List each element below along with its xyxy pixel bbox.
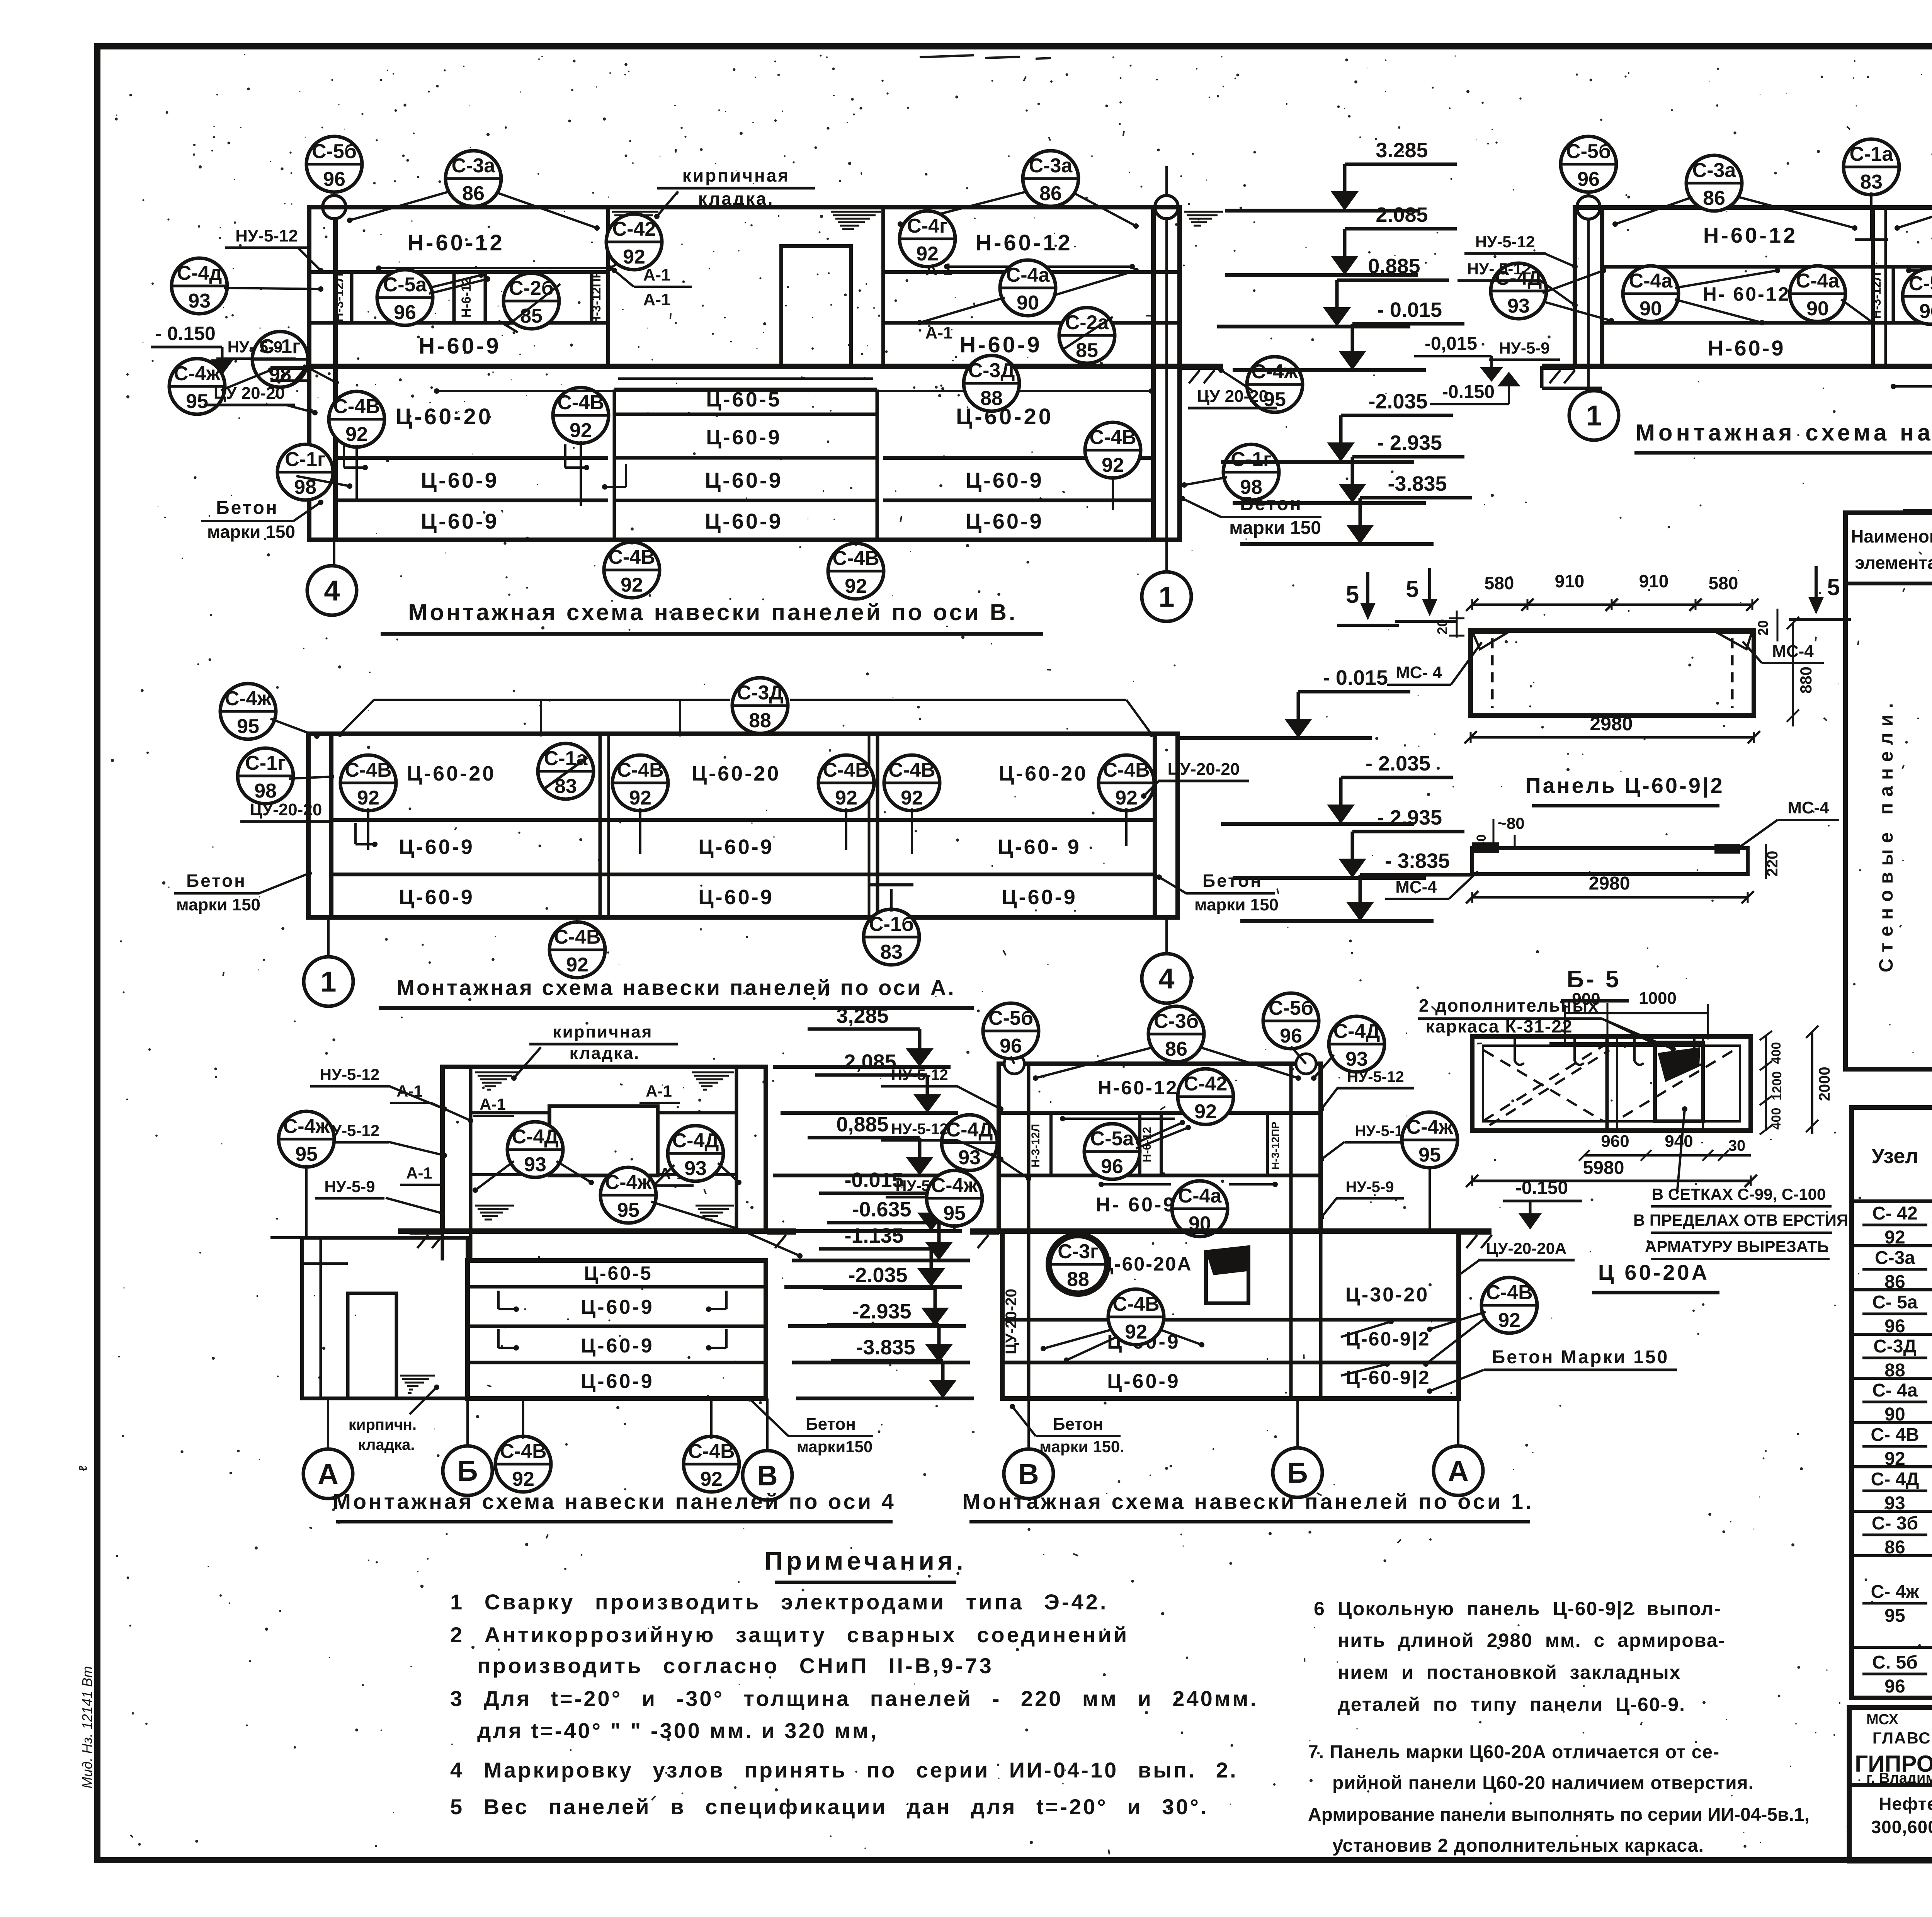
level mark - 2.935 [1233, 431, 1464, 503]
svg-text:элемента: элемента [1855, 553, 1932, 573]
top edge [1575, 205, 1932, 210]
svg-text:-3.835: -3.835 [1388, 472, 1447, 495]
level mark -0.015 [784, 1169, 962, 1231]
svg-text:2000: 2000 [1816, 1067, 1833, 1101]
svg-text:С-3Д: С-3Д [1873, 1336, 1917, 1357]
bottom edge -3.835 [309, 538, 1180, 542]
level mark -0.635 [792, 1198, 970, 1260]
svg-text:2.085: 2.085 [1376, 203, 1428, 226]
svg-text:С-4ж: С-4ж [283, 1115, 330, 1138]
svg-text:83: 83 [880, 941, 903, 963]
table: specification of overlay details [1852, 1107, 1932, 1698]
svg-text:С-3Д: С-3Д [968, 359, 1015, 382]
svg-text:Н- 60-9: Н- 60-9 [1096, 1194, 1176, 1216]
svg-text:кирпичная: кирпичная [682, 165, 790, 185]
svg-text:2,085: 2,085 [844, 1050, 896, 1073]
svg-text:для t=-40° ": для t=-40° " " -300 мм. и 320 мм, [477, 1718, 878, 1743]
level mark - 0.015 [1179, 666, 1410, 738]
svg-text:А-1: А-1 [646, 1082, 672, 1100]
mounting scheme along axis A [174, 666, 1472, 1008]
brick hatch [692, 1072, 734, 1090]
node marker С-4а/90 [1172, 1181, 1228, 1237]
level mark -2.035 [1221, 390, 1453, 462]
svg-text:88: 88 [1884, 1360, 1905, 1381]
brick hatch [475, 1206, 514, 1223]
svg-text:92: 92 [357, 787, 379, 809]
svg-text:С-1г: С-1г [285, 448, 325, 471]
svg-text:Ц-60-9: Ц-60-9 [698, 886, 774, 909]
svg-text:НУ- 5-9: НУ- 5-9 [228, 338, 283, 356]
svg-text:С- 4Д: С- 4Д [1871, 1469, 1919, 1490]
svg-text:96: 96 [1884, 1316, 1905, 1337]
svg-text:Б: Б [1287, 1457, 1308, 1489]
svg-text:92: 92 [623, 246, 645, 268]
node marker С-1г/98 [252, 332, 308, 387]
svg-text:С-4а: С-4а [1006, 264, 1050, 286]
svg-text:С-4В: С-4В [617, 759, 663, 781]
svg-text:С-4а: С-4а [1796, 270, 1840, 292]
node marker С-4Д/93 [507, 1122, 563, 1177]
node marker С-4ж/95 [220, 684, 276, 739]
svg-text:С-4Д: С-4Д [946, 1119, 993, 1141]
mounting scheme along axis 1 [881, 993, 1677, 1522]
ground hatch [1181, 368, 1223, 383]
axis line 4 [333, 166, 335, 587]
ground hatch [767, 1233, 796, 1248]
svg-text:93: 93 [188, 290, 211, 312]
node marker С-4В/92 [549, 922, 605, 978]
svg-text:Ц-60-9: Ц-60-9 [581, 1335, 654, 1357]
svg-text:НУ-5-12: НУ-5-12 [235, 226, 298, 245]
left wall column [1575, 208, 1602, 366]
node marker С-4В/92 [1481, 1277, 1537, 1333]
node marker С-5а/96 [1903, 269, 1932, 324]
title block [1849, 1708, 1932, 1861]
node marker С-4В/92 [884, 755, 940, 811]
svg-text:С-4ж: С-4ж [1406, 1116, 1454, 1138]
svg-text:Ц-60-9: Ц-60-9 [581, 1370, 654, 1393]
mounting scheme along axis 4 [270, 1022, 896, 1522]
svg-text:Н-60-9: Н-60-9 [418, 333, 501, 359]
left wall [308, 734, 331, 917]
svg-text:МС- 4: МС- 4 [1396, 663, 1442, 682]
svg-text:-0.015: -0.015 [844, 1169, 903, 1192]
node marker С-4Д/93 [1491, 263, 1546, 319]
svg-text:- 0.150: - 0.150 [155, 323, 216, 344]
lower block outline [1002, 1231, 1459, 1398]
axis 1 [1142, 572, 1191, 621]
axis А [303, 1449, 353, 1499]
svg-text:Н-3-12Л: Н-3-12Л [332, 273, 346, 322]
node marker С-4ж/95 [169, 359, 225, 414]
level mark 0,885 [773, 1113, 951, 1175]
svg-text:92: 92 [700, 1468, 723, 1490]
svg-text:96: 96 [394, 301, 416, 324]
axis В [1004, 1449, 1053, 1499]
svg-text:С-4В: С-4В [333, 395, 380, 418]
node marker С-42/92 [606, 214, 662, 270]
line +0.885 left [309, 321, 608, 325]
svg-text:400: 400 [1769, 1108, 1784, 1130]
svg-text:С-5а: С-5а [383, 274, 427, 296]
svg-text:Бетон: Бетон [1202, 871, 1263, 891]
svg-text:Ц 60-20А: Ц 60-20А [1598, 1260, 1709, 1284]
svg-text:2980: 2980 [1589, 873, 1630, 894]
svg-text:Н-3-12ПР: Н-3-12ПР [1269, 1122, 1281, 1170]
svg-text:- 2.935: - 2.935 [1377, 431, 1442, 454]
level mark 0.885 [1217, 255, 1449, 327]
svg-text:С- 4В: С- 4В [1871, 1425, 1919, 1445]
svg-text:-2.935: -2.935 [852, 1300, 911, 1323]
level mark -2.935 [792, 1300, 970, 1362]
divider [1871, 208, 1875, 366]
svg-text:92: 92 [1884, 1449, 1905, 1469]
svg-text:кирпичная: кирпичная [553, 1022, 653, 1041]
svg-text:-0,015: -0,015 [1425, 333, 1477, 354]
lower block [468, 1260, 766, 1398]
svg-text:400: 400 [1769, 1042, 1784, 1064]
section divider [881, 207, 885, 366]
row line [999, 1111, 1321, 1115]
svg-text:Б- 5: Б- 5 [1567, 966, 1621, 993]
svg-text:А-1: А-1 [396, 1082, 423, 1100]
svg-text:- 0.015: - 0.015 [1323, 666, 1388, 689]
axis Б [1273, 1448, 1322, 1497]
svg-text:2 дополнительных: 2 дополнительных [1419, 995, 1599, 1015]
ground hatch [1459, 1233, 1492, 1248]
svg-text:-0.635: -0.635 [852, 1198, 911, 1221]
svg-text:А-1: А-1 [643, 290, 671, 309]
svg-text:90: 90 [1884, 1404, 1905, 1425]
svg-text:С-1а: С-1а [544, 747, 588, 770]
node marker С-4В/92 [612, 755, 668, 811]
node marker С-42/92 [1178, 1069, 1233, 1124]
node marker С-4В/92 [818, 755, 874, 811]
svg-text:92: 92 [629, 787, 651, 809]
mounting scheme along axis Б (top-right elevation) [1414, 134, 1932, 453]
svg-text:1: 1 [1586, 400, 1602, 432]
svg-text:В: В [1018, 1458, 1039, 1490]
axis 1 [304, 957, 353, 1006]
svg-text:86: 86 [462, 182, 485, 205]
line +2.085 right [883, 270, 1180, 274]
svg-text:98: 98 [254, 780, 277, 802]
svg-text:Ц-60-5: Ц-60-5 [584, 1262, 652, 1284]
svg-text:Примечания.: Примечания. [764, 1546, 967, 1575]
axis line 1 [1165, 166, 1168, 595]
axis 1 [1569, 391, 1619, 440]
node marker С-4В/92 [553, 388, 609, 443]
svg-text:96: 96 [1000, 1035, 1022, 1057]
svg-text:85: 85 [1076, 339, 1098, 362]
level mark 2,085 [781, 1050, 958, 1113]
svg-text:92: 92 [1194, 1101, 1217, 1123]
svg-text:880: 880 [1797, 667, 1815, 694]
svg-text:6 Цокольную панель Ц-60-9|: 6 Цокольную панель Ц-60-9|2 выпол- [1314, 1598, 1721, 1620]
svg-text:Ц-60-9: Ц-60-9 [1107, 1370, 1180, 1393]
svg-text:марки 150: марки 150 [176, 895, 260, 914]
svg-text:5 Вес панелей в специфик: 5 Вес панелей в спецификации дан для t=-… [450, 1795, 1208, 1819]
svg-text:НУ-5-12: НУ-5-12 [891, 1121, 948, 1138]
svg-text:92: 92 [1125, 1321, 1147, 1343]
svg-text:С-3Д: С-3Д [737, 682, 784, 704]
svg-text:86: 86 [1703, 187, 1725, 209]
svg-text:95: 95 [295, 1143, 318, 1165]
svg-text:- 3.835: - 3.835 [1385, 849, 1450, 873]
svg-text:95: 95 [1418, 1144, 1441, 1166]
node marker С-1г/98 [1223, 444, 1279, 500]
brick hatch [1184, 212, 1223, 229]
level mark - 0.015 [1233, 298, 1464, 370]
svg-text:В: В [757, 1459, 777, 1492]
divider [599, 734, 602, 917]
line -2.035 [331, 818, 1155, 822]
svg-text:марки 150: марки 150 [1194, 895, 1279, 914]
svg-text:96: 96 [1884, 1676, 1905, 1697]
node marker С-4ж/95 [1247, 357, 1303, 412]
svg-text:производить согласно СНи: производить согласно СНиП II-В,9-73 [477, 1653, 994, 1678]
svg-text:93: 93 [684, 1157, 707, 1180]
level mark -3.835 [1240, 472, 1472, 544]
svg-text:рийной панели Ц60-20 наличием: рийной панели Ц60-20 наличием отверстия. [1332, 1773, 1754, 1793]
node marker С-3а/86 [1686, 155, 1742, 211]
svg-text:С-3а: С-3а [452, 155, 496, 177]
svg-text:МС-4: МС-4 [1787, 798, 1829, 817]
node marker С-5б/96 [1561, 136, 1616, 192]
svg-text:кирпичн.: кирпичн. [349, 1416, 417, 1433]
line +0.885 right [883, 321, 1180, 325]
svg-text:- 0.015: - 0.015 [1377, 298, 1442, 321]
node marker С-3а/86 [446, 151, 501, 206]
svg-text:марки 150.: марки 150. [1039, 1437, 1124, 1456]
svg-text:93: 93 [524, 1153, 546, 1176]
svg-text:Армирование панели выполнять п: Армирование панели выполнять по серии ИИ… [1308, 1805, 1810, 1825]
svg-text:96: 96 [1280, 1025, 1302, 1047]
svg-text:5980: 5980 [1583, 1158, 1624, 1178]
svg-text:Стеновые панели.: Стеновые панели. [1875, 697, 1897, 973]
svg-text:Ц-60-9: Ц-60-9 [421, 468, 499, 492]
svg-text:МСХ: МСХ [1866, 1711, 1899, 1728]
section divider [606, 207, 610, 366]
svg-text:300,600 м³ для колхозов: 300,600 м³ для колхозов [1871, 1817, 1932, 1837]
svg-text:ЦУ-20-20: ЦУ-20-20 [1003, 1289, 1020, 1354]
node marker С-4В/92 [495, 1436, 551, 1492]
svg-text:С-3г: С-3г [1058, 1240, 1098, 1263]
right wall [1155, 734, 1178, 917]
svg-text:установив 2 дополнительных к: установив 2 дополнительных каркаса. [1332, 1835, 1704, 1856]
svg-text:95: 95 [1884, 1606, 1905, 1626]
node marker С-3Д/88 [732, 678, 788, 733]
bottom edge -3.835 [308, 915, 1178, 920]
svg-text:- 2.035: - 2.035 [1366, 752, 1430, 775]
svg-text:Бетон: Бетон [186, 871, 247, 891]
svg-text:кладка.: кладка. [570, 1044, 640, 1063]
axis 4 [307, 566, 357, 615]
svg-text:96: 96 [1919, 300, 1932, 323]
node marker С-4а/90 [1000, 260, 1056, 316]
svg-text:С-5а: С-5а [1909, 272, 1932, 295]
svg-text:Монтажная схема навески: Монтажная схема навески панелей по оси В… [408, 599, 1017, 625]
node marker С-4д/93 [172, 258, 227, 314]
left wall column [309, 207, 335, 540]
svg-text:Бетон: Бетон [216, 498, 279, 518]
svg-text:Н-60-12: Н-60-12 [1098, 1077, 1179, 1099]
svg-text:С-4В: С-4В [1486, 1281, 1532, 1304]
detail: panel side view [1385, 798, 1839, 1001]
svg-text:г. Владимир: г. Владимир [1866, 1770, 1932, 1786]
node marker С-4В/92 [684, 1436, 739, 1492]
svg-text:86: 86 [1884, 1272, 1905, 1292]
detail: panel Ц-60-9|2 elevation [1387, 566, 1851, 806]
axis top circle [323, 196, 346, 219]
level mark 3.285 [1225, 139, 1457, 211]
svg-text:Ц-30-20: Ц-30-20 [1345, 1284, 1429, 1306]
svg-text:АРМАТУРУ ВЫРЕЗАТЬ: АРМАТУРУ ВЫРЕЗАТЬ [1645, 1237, 1829, 1255]
level mark -1.135 [784, 1224, 962, 1287]
svg-text:ℓ: ℓ [77, 1466, 90, 1471]
svg-text:Н-60-9: Н-60-9 [1708, 336, 1785, 360]
line -2.935 left [335, 498, 608, 502]
ground line [970, 1228, 1492, 1234]
svg-text:88: 88 [980, 387, 1003, 410]
svg-text:96: 96 [323, 168, 345, 191]
svg-text:1: 1 [320, 966, 336, 998]
brick hatch [696, 1206, 734, 1223]
node marker С-3г/88 bold [1050, 1237, 1106, 1292]
svg-text:Ц-60- 9: Ц-60- 9 [998, 835, 1081, 859]
svg-text:С-4В: С-4В [557, 391, 604, 414]
svg-text:Ц-60-9: Ц-60-9 [966, 468, 1044, 492]
node marker С-1а/83 [1844, 139, 1899, 195]
opening in panel Ц-60-20А [1206, 1247, 1248, 1303]
svg-text:С-4Д: С-4Д [1333, 1020, 1380, 1043]
brick hatch [475, 1072, 518, 1090]
svg-text:каркаса К-31-22: каркаса К-31-22 [1426, 1016, 1573, 1036]
svg-text:Ц-60-9: Ц-60-9 [705, 468, 783, 492]
svg-text:Монтажная схема навески пане: Монтажная схема навески панелей по оси Б [1636, 420, 1932, 446]
ground line -0.015 [270, 364, 1223, 369]
svg-text:кладка.: кладка. [358, 1436, 415, 1453]
svg-text:Н-3-12Л: Н-3-12Л [1029, 1124, 1042, 1168]
svg-text:5: 5 [1827, 574, 1840, 600]
svg-text:Бетон: Бетон [1053, 1415, 1103, 1434]
node marker С-1а/83 [538, 743, 594, 799]
svg-text:Ц-60-20: Ц-60-20 [999, 762, 1088, 785]
svg-text:Бетон: Бетон [806, 1415, 856, 1434]
brick hatch [400, 1376, 435, 1393]
top edge -0.015 [308, 731, 1178, 736]
level mark 3,285 [773, 1004, 951, 1067]
node marker С-4а/90 [1790, 266, 1845, 321]
svg-text:95: 95 [943, 1202, 966, 1225]
svg-text:С-4д: С-4д [177, 262, 222, 284]
node marker С-5б/96 [1263, 993, 1319, 1049]
line +2.085 left [309, 270, 608, 274]
top leader [374, 699, 730, 701]
axis В [743, 1451, 792, 1500]
node marker С-4Д/93 [942, 1115, 997, 1170]
upper block outline [999, 1064, 1321, 1231]
top edge +3.285 [309, 205, 1180, 209]
node marker С-4В/92 [1108, 1289, 1164, 1345]
svg-text:Нефтесклад емкостью: Нефтесклад емкостью [1879, 1794, 1932, 1814]
svg-text:Н-60-9: Н-60-9 [959, 332, 1042, 357]
svg-text:ЦУ-20-20: ЦУ-20-20 [1168, 760, 1240, 779]
svg-text:ЦУ 20-20: ЦУ 20-20 [1197, 387, 1268, 406]
svg-text:МС-4: МС-4 [1395, 878, 1437, 896]
svg-text:Ц-60-9: Ц-60-9 [421, 509, 499, 533]
ground line [398, 1228, 796, 1234]
divider [876, 734, 879, 917]
svg-text:Ц-60-9: Ц-60-9 [581, 1296, 654, 1318]
svg-text:А: А [318, 1458, 338, 1490]
axis Б [443, 1446, 492, 1495]
svg-text:НУ-5-12: НУ-5-12 [1475, 233, 1535, 251]
svg-text:НУ- 5-12: НУ- 5-12 [1467, 260, 1531, 278]
svg-text:4: 4 [324, 575, 340, 607]
svg-text:Н- 60-12: Н- 60-12 [1703, 283, 1791, 305]
svg-text:-2.035: -2.035 [1368, 390, 1427, 413]
svg-text:90: 90 [1017, 292, 1039, 314]
leader line С-42 [379, 267, 611, 269]
node marker С-4В/92 [604, 542, 660, 598]
svg-text:20: 20 [1755, 620, 1771, 636]
svg-text:88: 88 [749, 709, 771, 732]
svg-text:А-1: А-1 [480, 1095, 506, 1113]
node marker С-4ж/95 [1402, 1112, 1458, 1168]
line +2.085 [1602, 265, 1932, 269]
svg-text:910: 910 [1639, 571, 1669, 591]
svg-text:92: 92 [835, 787, 857, 809]
svg-text:С- 3б: С- 3б [1872, 1513, 1918, 1534]
svg-text:Н-3-12ПР: Н-3-12ПР [589, 270, 603, 325]
svg-text:С-4а: С-4а [1178, 1185, 1222, 1207]
svg-text:92: 92 [916, 243, 939, 265]
node marker С-5б/96 [983, 1003, 1039, 1059]
svg-text:580: 580 [1485, 573, 1514, 593]
ground hatch [1542, 368, 1575, 383]
node marker С-4В/92 [329, 391, 384, 447]
svg-text:3,285: 3,285 [836, 1004, 888, 1027]
svg-text:30: 30 [1728, 1137, 1746, 1154]
node marker С-2б/85 [503, 273, 559, 329]
svg-text:С-5а: С-5а [1090, 1128, 1134, 1150]
node marker С-3б/86 [1148, 1006, 1204, 1062]
svg-text:ЦУ-20-20: ЦУ-20-20 [250, 800, 322, 819]
svg-text:С-4В: С-4В [1112, 1293, 1159, 1315]
svg-text:Ц-60-9: Ц-60-9 [399, 835, 474, 859]
node marker С-3Д/88 [964, 356, 1019, 411]
detail: section Б-5 panel Ц60-20А [1418, 989, 1848, 1293]
svg-text:4: 4 [1158, 963, 1174, 995]
level mark -2.035 [788, 1264, 966, 1326]
svg-text:960: 960 [1601, 1132, 1629, 1151]
svg-text:580: 580 [1709, 573, 1738, 593]
svg-text:С-4В: С-4В [608, 546, 655, 568]
svg-text:С-1а: С-1а [1850, 143, 1894, 165]
svg-text:-0.150: -0.150 [1442, 382, 1495, 402]
svg-text:- 2.935: - 2.935 [1377, 806, 1442, 829]
ground hatch [270, 368, 309, 383]
node marker С-5б/96 [306, 136, 362, 192]
svg-text:Бетон Марки 150: Бетон Марки 150 [1492, 1347, 1669, 1368]
svg-text:С-2б: С-2б [509, 277, 554, 299]
svg-text:92: 92 [1884, 1227, 1905, 1248]
svg-text:Ц-60-9|2: Ц-60-9|2 [1345, 1367, 1430, 1389]
svg-text:деталей по типу панели Ц-: деталей по типу панели Ц-60-9. [1338, 1694, 1685, 1715]
svg-text:НУ-5-12: НУ-5-12 [320, 1065, 380, 1084]
node marker С-2а/85 [1059, 308, 1115, 363]
